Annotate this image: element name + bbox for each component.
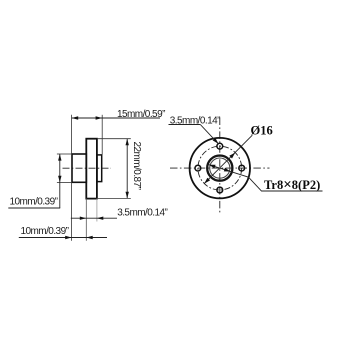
svg-text:Ø16: Ø16 [251, 123, 273, 137]
svg-text:10mm/0.39”: 10mm/0.39” [21, 226, 69, 237]
svg-text:22mm/0.87”: 22mm/0.87” [131, 142, 142, 190]
svg-text:15mm/0.59”: 15mm/0.59” [117, 109, 165, 120]
svg-text:3.5mm/0.14”: 3.5mm/0.14” [117, 208, 167, 219]
svg-text:10mm/0.39”: 10mm/0.39” [10, 197, 58, 208]
